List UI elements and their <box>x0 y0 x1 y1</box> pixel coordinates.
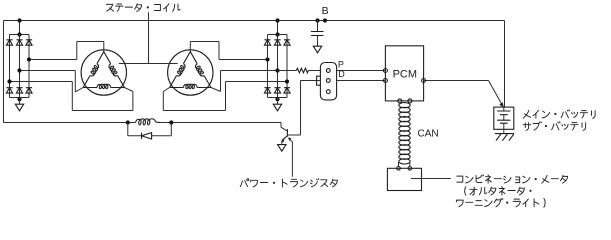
svg-text:D: D <box>338 69 345 79</box>
label combination meter line1 <box>457 175 568 183</box>
label CAN <box>418 128 439 139</box>
node phase U rectifier 1 <box>27 57 31 61</box>
diode D6 <box>26 88 32 93</box>
label P <box>338 60 344 70</box>
pin meter CAN2 <box>408 162 412 170</box>
wire rail to rectifier 1 <box>19 21 21 35</box>
node rectifier 2 top <box>275 32 279 36</box>
label power transistor text <box>240 179 337 187</box>
diode D3 <box>26 40 32 45</box>
stator coil 2 winding right <box>190 52 211 88</box>
svg-text:P: P <box>338 60 344 70</box>
transistor Q1 <box>281 129 287 144</box>
wire alternator left edge <box>3 21 5 123</box>
node phase V rectifier 2 <box>275 68 279 72</box>
label PCM <box>393 68 417 80</box>
stator coil 1 winding bottom <box>83 84 124 88</box>
label stator coil text <box>107 4 181 12</box>
label main battery <box>523 110 595 119</box>
battery cells <box>497 107 510 129</box>
stator coil 1 winding left <box>83 52 104 88</box>
label D <box>338 69 345 79</box>
wire rectifier 2 bottom bar <box>268 97 288 99</box>
ground rectifier 1 <box>15 98 23 111</box>
ground transistor emitter <box>278 145 286 152</box>
diode D5 <box>16 88 22 93</box>
wire rectifier 2 top bar <box>268 34 288 36</box>
diode flyback D13 <box>141 133 151 139</box>
wire D signal <box>301 80 386 82</box>
battery box <box>494 107 514 129</box>
pin PCM CAN2 <box>408 99 412 103</box>
connector block <box>320 63 336 100</box>
wire rectifier 1 columns <box>10 35 30 98</box>
stator coil 2 circle <box>168 50 213 95</box>
diode D4 <box>6 88 12 93</box>
wire rectifier 1 top bar <box>10 34 30 36</box>
inductor field coil <box>136 119 161 125</box>
node field coil left <box>126 120 130 124</box>
wire rail to rectifier 2 <box>277 21 279 35</box>
label B terminal <box>322 5 329 17</box>
svg-text:CAN: CAN <box>418 128 439 139</box>
stator coil 2 winding bottom <box>170 84 211 88</box>
pin PCM B <box>422 79 426 83</box>
wire rail to battery <box>504 21 506 108</box>
pin PCM P <box>383 69 387 73</box>
diode D9 <box>284 40 290 45</box>
diode D12 <box>284 88 290 93</box>
CAN twisted pair <box>399 103 410 164</box>
node phase U rectifier 2 <box>265 57 269 61</box>
ground capacitor <box>313 46 321 53</box>
resistor R1 <box>278 68 321 73</box>
wire phase W right stator <box>163 82 287 111</box>
pin PCM CAN1 <box>398 99 402 103</box>
wire phase W left stator <box>10 82 133 111</box>
stator coil 1 circle <box>81 50 126 95</box>
wire phase V left stator <box>20 71 84 92</box>
node rectifier 1 top <box>17 32 21 36</box>
pin meter CAN1 <box>397 162 401 170</box>
diode D10 <box>264 88 270 93</box>
label stator coil leader <box>119 12 178 63</box>
wire phase U right stator <box>190 42 267 60</box>
diode D11 <box>274 88 280 93</box>
label combination meter line2 <box>465 187 532 196</box>
label combination meter line3 <box>456 198 545 207</box>
label combination meter leader <box>411 178 451 180</box>
PCM box <box>385 46 423 101</box>
wire B+ top rail <box>4 20 505 22</box>
node rail junction 2 <box>275 18 279 22</box>
diode D1 <box>6 40 12 45</box>
wire phase V right stator <box>211 71 296 92</box>
stator coil 2 winding left <box>170 52 191 88</box>
node B terminal dots <box>315 18 327 22</box>
node field coil right <box>169 120 173 124</box>
node phase V rectifier 1 <box>17 68 21 72</box>
ground battery <box>495 129 514 140</box>
stator coil 1 winding right <box>104 52 125 88</box>
connector terminal bracket <box>317 76 321 85</box>
diode D2 <box>16 40 22 45</box>
node phase W rectifier 2 <box>285 79 289 83</box>
wire rectifier 1 bottom bar <box>10 97 30 99</box>
label power transistor leader <box>288 137 292 176</box>
wire P signal <box>337 70 386 72</box>
wire flyback branch <box>128 123 172 136</box>
wire phase U left stator <box>29 42 104 60</box>
capacitor C1 <box>311 21 324 47</box>
svg-text:PCM: PCM <box>393 68 417 80</box>
transistor Q1 collector wire <box>281 123 287 132</box>
node rectifier 2 bottom <box>275 97 279 101</box>
combination meter box <box>387 168 421 190</box>
diode D8 <box>274 40 280 45</box>
node rectifier 1 bottom <box>17 97 21 101</box>
label sub battery <box>523 122 586 131</box>
diode D7 <box>264 40 270 45</box>
ground rectifier 2 <box>273 98 281 111</box>
wire PCM to battery <box>424 81 504 108</box>
wire rectifier 2 columns <box>268 35 288 98</box>
wire base from D terminal <box>287 81 300 136</box>
wire field supply bottom rail <box>4 122 282 124</box>
node phase W rectifier 1 <box>7 79 11 83</box>
svg-text:B: B <box>322 5 329 17</box>
node rail junction 1 <box>17 18 21 22</box>
pin PCM D <box>383 79 387 83</box>
